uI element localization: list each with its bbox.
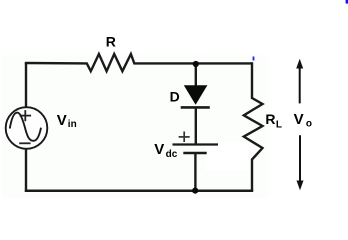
- svg-text:in: in: [68, 119, 77, 130]
- svg-text:dc: dc: [166, 149, 178, 160]
- svg-text:V: V: [57, 112, 67, 129]
- svg-text:D: D: [170, 89, 180, 105]
- svg-text:R: R: [106, 34, 116, 50]
- svg-text:V: V: [294, 111, 304, 128]
- svg-text:R: R: [265, 111, 275, 127]
- svg-text:V: V: [154, 141, 164, 158]
- svg-text:L: L: [276, 120, 282, 131]
- svg-text:o: o: [306, 119, 312, 130]
